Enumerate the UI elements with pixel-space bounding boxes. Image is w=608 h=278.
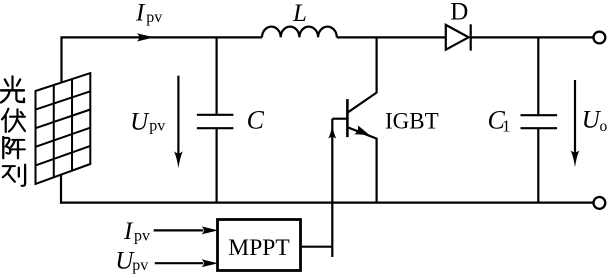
svg-text:IGBT: IGBT	[385, 108, 439, 133]
diode D cathode bar	[470, 24, 472, 50]
svg-text:I: I	[123, 218, 134, 245]
MPPT input arrow Upv	[155, 262, 203, 264]
svg-text:U: U	[130, 109, 150, 136]
svg-text:C: C	[247, 106, 265, 135]
transistor IGBT emitter wire	[347, 127, 376, 202]
svg-text:1: 1	[502, 117, 511, 136]
transistor IGBT base bar	[346, 99, 349, 137]
transistor IGBT collector wire	[347, 37, 376, 112]
wire MPPT gate drive vertical	[331, 119, 333, 257]
arrow Uo voltage	[574, 80, 576, 160]
svg-text:pv: pv	[134, 228, 150, 245]
label guang PV array char1	[1, 76, 24, 102]
svg-text:I: I	[135, 0, 146, 27]
svg-text:pv: pv	[132, 257, 148, 274]
arrow Upv voltage	[177, 76, 179, 161]
output terminal circle top	[594, 32, 606, 44]
current Ipv arrowhead on top wire	[137, 33, 154, 41]
MPPT box	[218, 220, 301, 271]
label zhen PV array char3	[3, 137, 25, 159]
svg-text:L: L	[292, 0, 307, 27]
label lie PV array char4	[3, 165, 25, 186]
bottom bus wire	[61, 175, 593, 203]
gate drive arrowhead up	[328, 125, 336, 139]
svg-text:pv: pv	[149, 118, 165, 135]
label fu PV array char2	[2, 109, 25, 132]
inductor L coil	[262, 27, 337, 38]
output terminal circle bottom	[594, 197, 606, 209]
wire MPPT output horizontal	[301, 246, 333, 248]
photovoltaic array panel grid	[36, 73, 91, 184]
wire diode to output terminal	[471, 36, 594, 38]
svg-text:pv: pv	[146, 9, 162, 26]
capacitor C bottom lead	[216, 128, 218, 202]
wire inductor to diode	[337, 36, 446, 38]
svg-text:D: D	[450, 0, 468, 26]
capacitor C top lead	[216, 37, 218, 114]
wire top bus left segment	[62, 37, 263, 82]
capacitor C1 top lead	[537, 37, 539, 115]
transistor IGBT emitter arrowhead	[354, 125, 369, 135]
MPPT input arrow Ipv	[154, 229, 203, 231]
transistor IGBT gate lead	[332, 118, 347, 120]
svg-text:MPPT: MPPT	[228, 235, 289, 261]
svg-text:o: o	[600, 118, 608, 135]
capacitor C1 bottom lead	[537, 128, 539, 202]
capacitor C plates	[197, 114, 234, 116]
diode D triangle	[446, 25, 469, 50]
capacitor C1 plates	[521, 114, 558, 116]
